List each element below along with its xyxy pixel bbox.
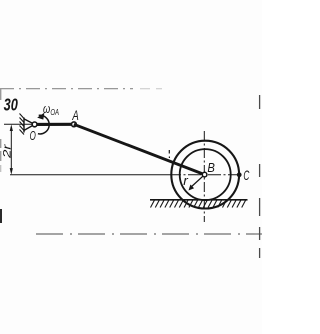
ground hatching bbox=[151, 200, 246, 208]
svg-text:30: 30 bbox=[4, 95, 18, 115]
frame bottom dashed border bbox=[36, 233, 262, 235]
svg-text:C: C bbox=[243, 167, 250, 183]
pivot O bbox=[32, 122, 37, 127]
svg-text:2r: 2r bbox=[1, 143, 13, 160]
vertical center line of wheel bbox=[203, 131, 205, 222]
frame left dashed border bbox=[0, 88, 2, 161]
stray dash-dot mark near rod bbox=[168, 150, 170, 158]
extension line at pivot level bbox=[4, 123, 33, 125]
radius arrow r bbox=[190, 175, 204, 188]
point C bbox=[237, 172, 242, 177]
svg-text:OA: OA bbox=[50, 108, 59, 117]
frame right dashed border bbox=[259, 95, 261, 258]
svg-text:ω: ω bbox=[43, 101, 50, 116]
crank link OA bbox=[35, 123, 74, 126]
support hatching bbox=[20, 114, 25, 135]
support triangle bbox=[24, 119, 35, 130]
svg-text:r: r bbox=[183, 173, 188, 188]
horizontal center line through wheel (node B level) bbox=[10, 174, 168, 176]
svg-text:A: A bbox=[72, 107, 79, 123]
svg-text:O: O bbox=[30, 128, 36, 143]
omega_OA arc arrow bbox=[38, 115, 49, 134]
wheel outer circle bbox=[171, 141, 239, 209]
connecting rod AB bbox=[74, 124, 205, 174]
dimension line 2r bbox=[10, 127, 12, 172]
svg-text:B: B bbox=[207, 160, 215, 175]
frame top dashed border bbox=[0, 88, 133, 90]
ground line bbox=[150, 199, 248, 201]
fixed support wall bbox=[23, 118, 25, 133]
joint B bbox=[202, 172, 207, 177]
joint A bbox=[72, 122, 77, 127]
wheel inner circle bbox=[180, 149, 231, 200]
